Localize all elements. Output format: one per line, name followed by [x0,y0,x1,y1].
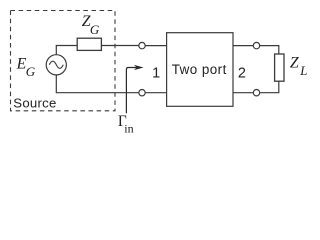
wire port1 top terminal to two-port box [145,45,166,47]
impedance Z_G (series resistor box) [77,38,101,50]
terminal circle port1 bottom [139,90,145,96]
svg-text:in: in [124,121,133,135]
wire port1 bottom terminal back to source [56,75,139,93]
label port number 1 [152,65,160,81]
label Two port [172,62,227,77]
label port number 2 [238,65,246,81]
Gamma_in reference arrow [126,65,143,113]
svg-text:2: 2 [238,65,246,81]
wire source top to resistor [56,46,77,55]
label E_G [16,56,36,79]
svg-text:1: 1 [152,65,160,81]
wire two-port box to port2 top terminal [233,45,253,47]
source outline dashed box [11,11,116,111]
terminal circle port2 bottom [253,90,259,96]
wire resistor to port1 top terminal [101,45,138,47]
two-port network box [167,33,233,107]
wire two-port box to port1 bottom terminal [145,92,166,94]
label Z_G [82,13,100,37]
wire load bottom to port2 bottom terminal [260,81,279,93]
svg-text:G: G [90,22,100,37]
wire port2 top terminal to load [260,46,279,54]
wire port2 bottom terminal to two-port box [233,92,253,94]
terminal circle port2 top [253,42,259,48]
terminal circle port1 top [139,42,145,48]
label Z_L [290,55,308,79]
label Source [13,95,56,110]
label Gamma_in [118,113,134,135]
svg-text:L: L [299,64,307,78]
AC voltage source E_G [46,55,66,75]
load impedance Z_L [275,54,284,81]
svg-text:Source: Source [13,95,56,110]
svg-text:G: G [26,64,36,79]
svg-text:Two port: Two port [172,62,227,77]
svg-text:Z: Z [290,55,299,72]
